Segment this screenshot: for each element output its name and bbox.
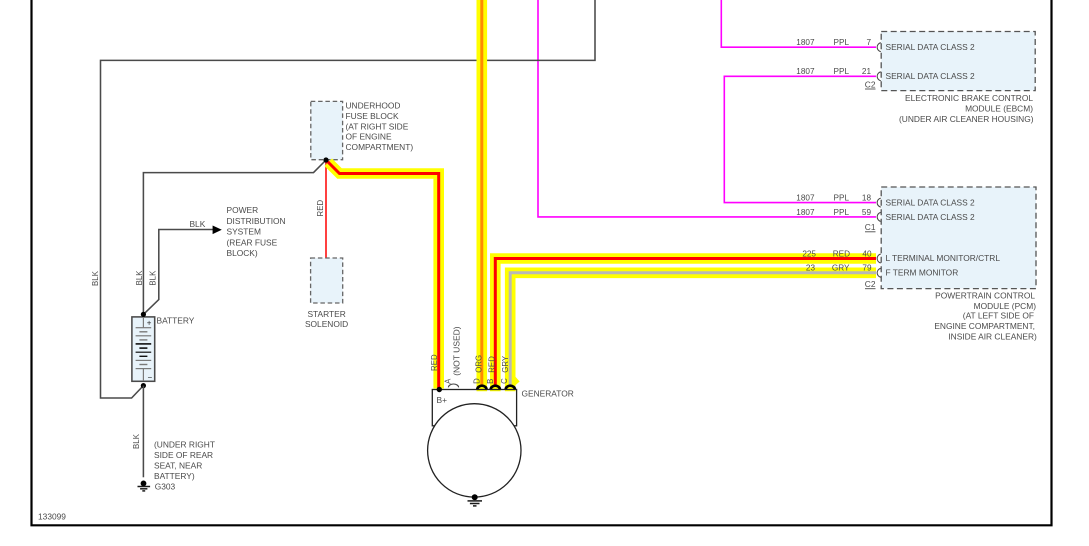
wire RED 225 PCM pin 40 to generator pin B <box>486 249 876 391</box>
svg-text:C2: C2 <box>865 79 876 89</box>
svg-text:(UNDER AIR CLEANER HOUSING): (UNDER AIR CLEANER HOUSING) <box>899 114 1034 124</box>
wire RED fuse block to starter solenoid <box>316 160 326 258</box>
wire PPL 1807 from top to EBCM pin 7 <box>721 0 876 47</box>
svg-text:OF ENGINE: OF ENGINE <box>346 132 392 142</box>
svg-text:SOLENOID: SOLENOID <box>305 319 348 329</box>
svg-text:RED: RED <box>833 249 850 258</box>
svg-text:79: 79 <box>862 263 872 272</box>
svg-text:1807: 1807 <box>796 67 815 76</box>
svg-text:RED: RED <box>488 356 497 373</box>
svg-text:F TERM MONITOR: F TERM MONITOR <box>886 267 959 277</box>
svg-text:SERIAL DATA CLASS 2: SERIAL DATA CLASS 2 <box>886 212 976 222</box>
svg-text:POWER: POWER <box>227 205 259 215</box>
svg-text:G303: G303 <box>155 482 176 492</box>
svg-text:SERIAL DATA CLASS 2: SERIAL DATA CLASS 2 <box>886 71 976 81</box>
svg-text:RED: RED <box>316 200 325 217</box>
svg-text:D: D <box>473 378 482 384</box>
svg-text:C: C <box>500 378 509 384</box>
svg-text:INSIDE AIR CLEANER): INSIDE AIR CLEANER) <box>948 332 1037 342</box>
svg-text:C1: C1 <box>865 222 876 232</box>
EBCM connector pin 7 <box>877 43 881 52</box>
svg-text:225: 225 <box>802 249 816 258</box>
svg-text:BLK: BLK <box>189 219 205 229</box>
svg-text:COMPARTMENT): COMPARTMENT) <box>346 142 414 152</box>
junction fuse block output <box>323 157 328 162</box>
generator pin B terminal <box>491 386 500 390</box>
svg-text:B+: B+ <box>437 395 448 405</box>
PCM connector pin 59 <box>877 212 881 221</box>
junction battery positive <box>141 312 146 317</box>
svg-text:BLK: BLK <box>132 433 141 449</box>
PCM connector pin 79 <box>877 268 881 277</box>
svg-text:FUSE BLOCK: FUSE BLOCK <box>346 111 399 121</box>
electronic brake control module EBCM <box>865 32 1035 125</box>
svg-text:PPL: PPL <box>834 38 850 47</box>
svg-text:−: − <box>148 373 153 382</box>
svg-text:133099: 133099 <box>38 512 66 522</box>
junction generator B+ <box>437 387 442 392</box>
svg-text:40: 40 <box>862 249 872 258</box>
wire ORG generator pin D from top <box>473 0 484 391</box>
underhood fuse block <box>311 100 414 159</box>
wire BLK battery negative feed from top <box>91 0 595 398</box>
wire PPL 1807 EBCM pin 21 to PCM pin 18 <box>724 67 876 203</box>
PCM connector pin 18 <box>877 198 881 207</box>
svg-text:(NOT USED): (NOT USED) <box>452 326 462 376</box>
svg-text:(REAR FUSE: (REAR FUSE <box>227 237 278 247</box>
svg-text:ENGINE COMPARTMENT,: ENGINE COMPARTMENT, <box>934 321 1035 331</box>
svg-text:1807: 1807 <box>796 208 815 217</box>
junction battery negative <box>141 383 146 388</box>
battery <box>132 316 195 383</box>
svg-text:MODULE (PCM): MODULE (PCM) <box>974 301 1037 311</box>
svg-text:23: 23 <box>806 263 816 272</box>
generator pin D terminal <box>477 386 486 390</box>
svg-text:L TERMINAL MONITOR/CTRL: L TERMINAL MONITOR/CTRL <box>886 253 1001 263</box>
svg-text:BLK: BLK <box>91 270 100 286</box>
EBCM connector pin 21 <box>877 72 881 81</box>
PCM connector pin 40 <box>877 254 881 263</box>
svg-text:B: B <box>486 379 495 384</box>
svg-text:SERIAL DATA CLASS 2: SERIAL DATA CLASS 2 <box>886 42 976 52</box>
wire PPL 1807 from top to PCM pin 59 <box>538 0 876 217</box>
svg-text:STARTER: STARTER <box>307 309 345 319</box>
svg-text:ELECTRONIC BRAKE CONTROL: ELECTRONIC BRAKE CONTROL <box>905 93 1033 103</box>
wire BLK fuse block to battery positive <box>135 160 326 314</box>
svg-text:DISTRIBUTION: DISTRIBUTION <box>227 216 286 226</box>
svg-text:(AT RIGHT SIDE: (AT RIGHT SIDE <box>346 121 409 131</box>
svg-text:PPL: PPL <box>834 67 850 76</box>
svg-text:ORG: ORG <box>474 355 483 373</box>
svg-text:A: A <box>443 378 452 384</box>
svg-text:UNDERHOOD: UNDERHOOD <box>346 100 401 110</box>
ground G303 <box>138 481 176 492</box>
wire RED fusible link B+ to generator <box>326 160 439 389</box>
ground generator case <box>468 494 483 506</box>
svg-text:7: 7 <box>866 38 871 47</box>
svg-text:GENERATOR: GENERATOR <box>522 389 574 399</box>
svg-text:59: 59 <box>862 208 872 217</box>
wire GRY 23 PCM pin 79 to generator pin C <box>500 263 876 391</box>
svg-text:SIDE OF REAR: SIDE OF REAR <box>154 450 213 460</box>
svg-text:PPL: PPL <box>834 208 850 217</box>
svg-text:BATTERY): BATTERY) <box>154 471 195 481</box>
powertrain control module PCM <box>865 187 1037 342</box>
svg-text:SEAT, NEAR: SEAT, NEAR <box>154 461 202 471</box>
generator <box>428 389 574 498</box>
svg-text:BLK: BLK <box>149 270 158 286</box>
svg-text:BLOCK): BLOCK) <box>227 248 258 258</box>
svg-text:BLK: BLK <box>135 270 144 286</box>
svg-text:SERIAL DATA CLASS 2: SERIAL DATA CLASS 2 <box>886 198 976 208</box>
svg-text:C2: C2 <box>865 279 876 289</box>
svg-text:BATTERY: BATTERY <box>157 316 195 326</box>
svg-text:SYSTEM: SYSTEM <box>227 227 261 237</box>
svg-text:+: + <box>147 319 152 328</box>
svg-text:18: 18 <box>862 194 872 203</box>
svg-text:1807: 1807 <box>796 194 815 203</box>
svg-text:1807: 1807 <box>796 38 815 47</box>
generator pin A not used <box>443 326 461 387</box>
wire BLK battery positive to power distribution system <box>143 205 285 314</box>
svg-text:GRY: GRY <box>832 263 850 272</box>
svg-text:MODULE (EBCM): MODULE (EBCM) <box>965 104 1033 114</box>
svg-text:(UNDER RIGHT: (UNDER RIGHT <box>154 440 215 450</box>
wire BLK battery negative to ground G303 <box>132 386 215 482</box>
svg-text:RED: RED <box>430 354 439 371</box>
svg-text:GRY: GRY <box>501 355 510 373</box>
svg-text:21: 21 <box>862 67 872 76</box>
svg-text:(AT LEFT SIDE OF: (AT LEFT SIDE OF <box>963 310 1034 320</box>
generator pin C terminal <box>506 386 515 390</box>
svg-text:PPL: PPL <box>834 194 850 203</box>
starter solenoid <box>305 258 348 329</box>
svg-text:POWERTRAIN CONTROL: POWERTRAIN CONTROL <box>935 291 1035 301</box>
